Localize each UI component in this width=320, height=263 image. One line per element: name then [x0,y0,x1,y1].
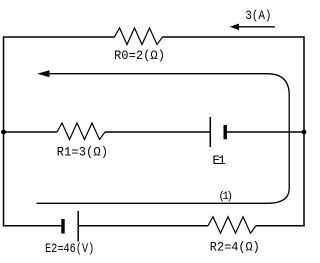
wire: middle branch center segment [105,131,210,133]
node: junction left [1,130,6,135]
battery E2 negative plate (short thick) [61,219,64,234]
svg-text:3(A): 3(A) [245,8,271,23]
resistor R0 [115,28,163,45]
wire: bottom left segment [3,225,62,227]
node: junction right [302,130,307,135]
loop (1) arrow path [37,74,290,204]
svg-text:R2=4(Ω): R2=4(Ω) [210,240,260,255]
resistor R2 [208,217,256,234]
battery E1 negative plate (short thick) [223,125,226,139]
svg-text:1: 1 [218,153,226,168]
current arrow 3(A) line [235,26,275,28]
battery E1 positive plate (long thin) [209,117,211,147]
wire: right side vertical [303,37,305,226]
resistor R1 [57,123,105,140]
wire: middle branch right segment [227,131,304,133]
wire: middle branch left segment [4,131,58,133]
wire: top left segment [3,36,115,38]
svg-text:R1=3(Ω): R1=3(Ω) [57,145,109,160]
svg-text:E2=46(V): E2=46(V) [45,241,94,256]
loop (1) arrowhead [37,70,49,77]
battery E2 positive plate (long thin) [77,211,79,242]
wire: bottom middle segment [78,225,208,227]
svg-text:(1): (1) [218,191,231,203]
svg-text:R0=2(Ω): R0=2(Ω) [114,48,165,63]
wire: left side vertical [3,37,5,226]
current arrow 3(A) head [230,24,239,31]
wire: top right segment [163,36,305,38]
wire: bottom right segment [256,225,305,227]
